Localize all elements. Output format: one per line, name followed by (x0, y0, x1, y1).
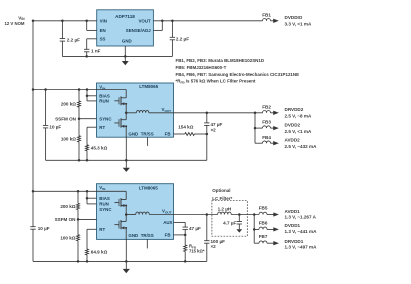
ferrite bead FB5 (259, 212, 267, 214)
svg-text:LTM8065: LTM8065 (139, 84, 158, 89)
ferrite bead FB7 (259, 241, 267, 243)
capacitor 4.7uF LC filter (238, 215, 240, 222)
svg-text:×2: ×2 (211, 244, 217, 249)
ground wire top section (62, 55, 172, 57)
svg-text:RT: RT (99, 125, 105, 130)
wire GND pin U3 (125, 239, 127, 261)
svg-text:FB: FB (165, 233, 171, 238)
node SSFM ON bottom (77, 210, 79, 235)
arrow output DRVDD1 (267, 242, 274, 244)
wire EN tie to VIN (86, 21, 88, 31)
svg-text:AVDD1: AVDD1 (285, 209, 301, 214)
node switch middle (125, 104, 127, 120)
svg-text:45.3 kΩ: 45.3 kΩ (91, 146, 108, 151)
capacitor 2.2uF output (171, 21, 173, 38)
capacitor 100uF x2 (206, 215, 208, 241)
svg-text:47 µF: 47 µF (189, 226, 201, 231)
svg-text:2.5 V, ~432 mA: 2.5 V, ~432 mA (285, 144, 318, 149)
svg-text:FB4: FB4 (262, 135, 271, 140)
ground symbol bottom (125, 261, 127, 269)
svg-text:2.5 V, ~8 mA: 2.5 V, ~8 mA (285, 114, 312, 119)
svg-text:TR/SS: TR/SS (141, 131, 154, 136)
svg-text:Optional: Optional (212, 188, 230, 193)
main VIN rail wire (32, 21, 34, 227)
svg-text:DVDD1: DVDD1 (285, 223, 301, 228)
transistor Q2 bottom FET middle (120, 118, 122, 127)
svg-text:RUN: RUN (99, 202, 109, 207)
wire RT pin middle (87, 126, 97, 128)
wire output branch bottom (253, 215, 255, 244)
arrow output DVDD1 (267, 228, 274, 230)
node SSFM ON middle (78, 107, 80, 136)
svg-text:VIN: VIN (100, 18, 107, 23)
svg-text:64.9 kΩ: 64.9 kΩ (91, 250, 108, 255)
svg-text:154 kΩ: 154 kΩ (178, 124, 193, 129)
svg-text:SSFM ON: SSFM ON (55, 217, 77, 222)
svg-text:AVDD2: AVDD2 (285, 138, 301, 143)
regulator U1 ADP7118 block (97, 10, 154, 46)
wire VIN branch to U2 (33, 89, 126, 91)
svg-text:VOUT: VOUT (138, 18, 151, 23)
resistor 200k middle (78, 90, 80, 101)
capacitor 10uF middle (45, 90, 47, 126)
arrow output DRVDD2 (271, 112, 274, 114)
svg-text:DVDDIO: DVDDIO (285, 15, 303, 20)
svg-text:GND: GND (128, 233, 138, 238)
wire TR/SS stub bottom (146, 239, 148, 248)
inductor internal middle (126, 112, 136, 114)
wire VOUT of U1 (153, 20, 262, 22)
svg-text:1.3 V, ~497 mA: 1.3 V, ~497 mA (285, 245, 318, 250)
svg-text:FB5: FB5 (259, 206, 268, 211)
svg-text:10 µF: 10 µF (38, 226, 50, 231)
resistor 154k (185, 133, 195, 136)
svg-text:FB7: FB7 (259, 234, 268, 239)
arrow output AVDD1 (267, 214, 274, 216)
wire GND pin of U1 (124, 46, 126, 56)
transistor Q1 top FET middle (125, 90, 127, 98)
wire VOUT bottom (174, 214, 218, 216)
wire VOUT middle (174, 112, 263, 114)
svg-text:4.7 µF: 4.7 µF (223, 220, 236, 225)
svg-text:EN: EN (100, 28, 106, 33)
ground wire middle section (46, 159, 207, 161)
wire GND pin U2 (125, 137, 127, 160)
svg-text:2.5 V, <1 mA: 2.5 V, <1 mA (285, 129, 312, 134)
svg-text:FB6: FB6 (259, 221, 268, 226)
svg-text:2.2 µF: 2.2 µF (176, 36, 189, 41)
svg-text:BIAS: BIAS (99, 196, 110, 201)
svg-text:SSFM ON: SSFM ON (55, 116, 77, 121)
wire BIAS RUN tie bottom (86, 191, 88, 204)
transistor Q3 top FET bottom (125, 191, 127, 199)
svg-text:SYNC: SYNC (99, 116, 112, 121)
resistor 200k bottom (77, 191, 79, 203)
node switch bottom (125, 206, 127, 222)
svg-text:FB: FB (165, 131, 171, 136)
svg-text:FB3: FB3 (262, 120, 271, 125)
resistor 64.9k bottom (86, 249, 89, 255)
svg-text:RT: RT (99, 227, 105, 232)
svg-text:AUX: AUX (163, 220, 172, 225)
wire FB pin middle (174, 133, 185, 135)
ferrite bead FB4 (263, 141, 271, 143)
svg-text:SYNC: SYNC (99, 207, 112, 212)
svg-text:SENSE/ADJ: SENSE/ADJ (126, 28, 151, 33)
svg-text:ADP7118: ADP7118 (115, 14, 135, 19)
wire SENSE/ADJ tie to VOUT (153, 29, 162, 31)
svg-text:LTM8065: LTM8065 (139, 185, 158, 190)
svg-text:FB2: FB2 (262, 104, 271, 109)
svg-text:TR/SS: TR/SS (141, 233, 154, 238)
wire FB pin bottom (174, 234, 186, 236)
svg-text:1.3 V, ~441 mA: 1.3 V, ~441 mA (285, 229, 318, 234)
svg-text:2.2 µF: 2.2 µF (67, 38, 80, 43)
capacitor 1nF soft-start (84, 48, 89, 50)
resistor 100k middle (78, 136, 81, 142)
arrow output DVDDIO (271, 20, 274, 22)
resistor 100k bottom (77, 235, 80, 241)
capacitor 2.2uF input (61, 21, 63, 39)
svg-text:100 kΩ: 100 kΩ (61, 137, 76, 142)
svg-text:SS: SS (100, 36, 106, 41)
inductor 1.2uH (218, 212, 232, 214)
wire VIN to ADP7118 (33, 20, 97, 22)
transistor Q4 bottom FET bottom (120, 220, 122, 229)
capacitor 47uF bottom (183, 226, 188, 228)
svg-text:100 kΩ: 100 kΩ (60, 236, 75, 241)
inductor internal bottom (126, 214, 136, 216)
wire RT pin bottom (87, 228, 97, 230)
wire TR/SS stub middle (147, 137, 149, 146)
wire output branch middle (254, 113, 256, 143)
ground symbol LC filter (238, 224, 240, 229)
svg-text:FB4, FB6, FB7: Samsung Electro: FB4, FB6, FB7: Samsung Electro-Mechanics… (176, 72, 300, 77)
svg-text:10 µF: 10 µF (49, 125, 61, 130)
ground symbol top (124, 56, 126, 61)
capacitor 47uF x2 middle (206, 113, 208, 123)
capacitor 10uF bottom (30, 226, 35, 228)
wire AUX pin (174, 221, 186, 223)
resistor 45.3k middle (86, 145, 89, 151)
svg-text:FB1, FB2, FB3: Murata BLM18HE1: FB1, FB2, FB3: Murata BLM18HE102SN1D (176, 58, 265, 63)
svg-text:715 kΩ*: 715 kΩ* (189, 248, 205, 253)
svg-text:DRVDD2: DRVDD2 (285, 107, 304, 112)
ground symbol middle (125, 160, 127, 168)
ferrite bead FB6 (254, 228, 259, 230)
svg-text:×2: ×2 (211, 127, 217, 132)
svg-text:3.3 V, <1 mA: 3.3 V, <1 mA (285, 21, 312, 26)
svg-text:DRVDD1: DRVDD1 (285, 239, 304, 244)
svg-text:200 kΩ: 200 kΩ (61, 102, 76, 107)
svg-text:1 nF: 1 nF (91, 48, 101, 53)
svg-text:1.3 V, ~1.267 A: 1.3 V, ~1.267 A (285, 215, 317, 220)
arrow output AVDD2 (271, 142, 274, 144)
ferrite bead FB2 (263, 111, 271, 113)
optional LC filter dashed box (212, 201, 247, 237)
svg-text:1.2 µH: 1.2 µH (218, 207, 232, 212)
svg-text:LC Filter*: LC Filter* (212, 196, 232, 201)
arrow output DVDD2 (271, 127, 274, 129)
resistor RFB 715k (184, 245, 187, 252)
svg-text:DVDD2: DVDD2 (285, 123, 301, 128)
svg-text:FB1: FB1 (262, 12, 271, 17)
svg-text:GND: GND (122, 38, 132, 43)
svg-text:RUN: RUN (99, 99, 109, 104)
ferrite bead FB3 (255, 127, 263, 129)
ground wire bottom section (33, 260, 207, 262)
svg-text:GND: GND (128, 131, 138, 136)
svg-text:12 V NOM: 12 V NOM (4, 21, 24, 26)
regulator U2 LTM8065 block (middle) (97, 83, 174, 137)
svg-text:200 kΩ: 200 kΩ (60, 204, 75, 209)
wire BIAS RUN tie middle (86, 90, 88, 101)
svg-text:FB5: FBMJ3216HS600-T: FB5: FBMJ3216HS600-T (176, 65, 227, 70)
ferrite bead FB1 (263, 18, 271, 20)
wire VIN branch to U3 (33, 190, 126, 192)
svg-text:47 µF: 47 µF (211, 122, 223, 127)
wire SS pin (87, 38, 97, 40)
regulator U3 LTM8065 block (bottom) (97, 184, 174, 240)
